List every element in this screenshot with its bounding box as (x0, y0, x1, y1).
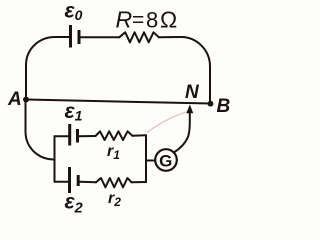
svg-text:N: N (185, 82, 200, 103)
svg-text:A: A (7, 89, 22, 110)
wire: galvanometer to jockey at N (174, 113, 190, 153)
svg-text:r1: r1 (107, 143, 120, 162)
pencil artifact (faint pink line) (147, 111, 191, 133)
wire: epsilon1 branch left lead (55, 135, 70, 137)
wire: potentiometer wire A to B (26, 100, 211, 104)
svg-text:Ω: Ω (160, 7, 177, 33)
resistor r2 (zigzag) (96, 178, 132, 187)
wire: epsilon1 to r1 lead (79, 135, 96, 137)
svg-text:ε2: ε2 (65, 191, 83, 217)
svg-text:R: R (116, 7, 133, 33)
wire: left riser from A up and arc to top (26, 37, 69, 100)
svg-text:G: G (159, 151, 172, 170)
galvanometer G circle (155, 149, 177, 171)
resistor r1 (zigzag) (96, 131, 133, 140)
svg-text:B: B (217, 96, 231, 117)
svg-text:ε0: ε0 (65, 0, 83, 23)
wire: epsilon2 to r2 lead (80, 181, 96, 184)
wire: top between cell and resistor R (81, 36, 120, 38)
wire: top right with arc down to B (159, 37, 210, 102)
wire: right bar to galvanometer (146, 160, 155, 162)
cell E1 long plate (68, 124, 71, 146)
svg-text:ε1: ε1 (65, 100, 83, 124)
jockey arrowhead at N (186, 105, 193, 114)
wire: r2 to right bar (132, 181, 147, 183)
svg-text:8: 8 (146, 8, 158, 33)
node A junction dot (23, 97, 29, 103)
wire: below A down and arc right to lower loop (26, 100, 55, 160)
wire: right bar of lower parallel box (145, 135, 147, 182)
wire: epsilon2 branch left lead (55, 181, 70, 183)
cell E0 long plate (69, 25, 72, 48)
cell E0 short plate (78, 30, 81, 44)
svg-text:=: = (132, 9, 144, 32)
cell E2 long plate (68, 167, 71, 193)
svg-text:r2: r2 (108, 190, 121, 209)
node B junction dot (208, 101, 214, 107)
cell E1 short plate (76, 129, 79, 143)
cell E2 short plate (77, 175, 80, 186)
wire: r1 to right bar (133, 134, 147, 137)
resistor R (zigzag) (119, 32, 159, 42)
wire: left bar of lower parallel box (54, 136, 56, 182)
